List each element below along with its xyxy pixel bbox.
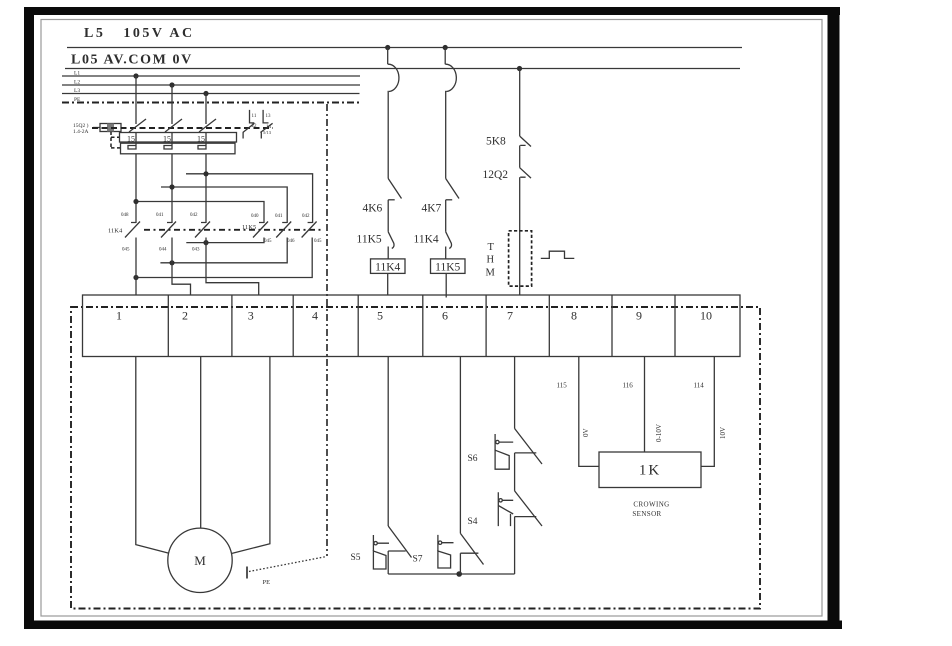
wire cross link D [186, 238, 264, 243]
pole blade 1 [129, 119, 146, 132]
wire 12Q2 to terminal 7 [519, 177, 521, 295]
wire terminal5 down [387, 357, 389, 527]
svg-text:15: 15 [163, 135, 171, 144]
scan border left bar [24, 7, 34, 629]
wire L1 drop [135, 76, 137, 124]
wire branch7 upper [519, 69, 521, 137]
wire hop over L05 branch5 [388, 64, 399, 91]
contact 11K4 blade [446, 232, 452, 249]
contact 041 blade [161, 222, 176, 238]
node dot branch5 on L5 [385, 45, 390, 50]
bus L3 [62, 93, 360, 95]
wire terminal3 to motor [232, 357, 270, 554]
svg-text:M: M [194, 553, 206, 568]
wire branch6 to 4K7 [445, 91, 447, 179]
FUSESECTION [73, 110, 273, 154]
wire v3 jog to terminal 3 [206, 238, 259, 296]
svg-text:22: 22 [252, 124, 258, 129]
wire hop over L05 branch6 [445, 64, 456, 91]
thermal module THM dashed box [509, 231, 532, 286]
svg-text:PE: PE [74, 97, 81, 103]
STRIP [71, 295, 760, 609]
svg-text:042: 042 [302, 214, 310, 219]
svg-text:045: 045 [314, 239, 322, 244]
inner page frame [41, 20, 822, 617]
SWITCHES [351, 357, 543, 577]
svg-text:S5: S5 [351, 553, 361, 563]
sensor 1K box [599, 452, 701, 488]
terminal divider 9|10 [674, 295, 676, 357]
wire terminal2 to motor [200, 357, 202, 529]
contact 048 blade [125, 222, 140, 238]
wire branch5 upper [387, 48, 389, 65]
node dot branch7 on L05 [517, 66, 522, 71]
svg-text:L5 105V AC: L5 105V AC [84, 26, 195, 41]
svg-text:048: 048 [121, 213, 129, 218]
svg-text:10V: 10V [719, 427, 727, 439]
contactor upper box [120, 133, 237, 143]
wire L2 drop [171, 85, 173, 124]
pushbutton S4 actuator [498, 492, 513, 526]
wire 5K8 to 12Q2 [519, 145, 521, 167]
terminal divider 7|8 [548, 295, 550, 357]
svg-text:1K: 1K [639, 463, 661, 479]
pushbutton S6 circle [496, 440, 499, 443]
node dot B-v2 [169, 184, 174, 189]
motor M1 circle [168, 528, 232, 592]
svg-text:11K4: 11K4 [375, 262, 400, 274]
scan border top bar [24, 7, 840, 15]
wire 4K7 to 11K4 [445, 200, 447, 232]
machine boundary dash-dot box [71, 307, 760, 609]
svg-text:11K5: 11K5 [357, 234, 382, 246]
pushbutton S5 flag [373, 551, 386, 569]
wire stub to breaker [93, 127, 100, 129]
svg-text:M: M [486, 268, 496, 279]
breaker 15Q2 body [100, 124, 121, 132]
heater element 3 [198, 143, 206, 149]
terminal divider 8|9 [611, 295, 613, 357]
wire coil to terminal 6 [445, 273, 447, 297]
wire pole2 through boxes [171, 132, 173, 143]
svg-text:15: 15 [127, 135, 135, 144]
svg-text:1: 1 [116, 309, 122, 323]
svg-text:2: 2 [182, 309, 188, 323]
aux contact 13-14 upper bracket [263, 110, 268, 123]
svg-text:4K6: 4K6 [363, 203, 383, 215]
MOTOR [136, 357, 327, 593]
wire branch6 upper [444, 48, 446, 65]
svg-text:10: 10 [700, 309, 712, 323]
aux contact 13-14 blade [260, 123, 272, 132]
node dot F-v1 [133, 275, 138, 280]
svg-text:5K8: 5K8 [486, 136, 506, 148]
heater element 1 [128, 143, 136, 149]
svg-text:H: H [487, 255, 495, 266]
pushbutton S4 circle [499, 499, 502, 502]
wire phase3 below overload [205, 154, 207, 223]
ground bar PE [246, 567, 248, 579]
svg-text:11K5: 11K5 [435, 262, 460, 274]
SENSOR [557, 357, 728, 519]
limit switch S4 blade [515, 491, 542, 526]
wire terminal6 down [459, 357, 461, 534]
svg-text:0-10V: 0-10V [655, 424, 663, 442]
svg-text:116: 116 [623, 382, 634, 390]
scan border right bar [828, 7, 840, 629]
svg-text:S7: S7 [413, 555, 423, 565]
node dot E-v2 [169, 260, 174, 265]
wire terminal8 to sensor 115 [579, 357, 599, 467]
BRANCHES [357, 45, 575, 298]
svg-text:045: 045 [264, 239, 272, 244]
svg-text:L1: L1 [74, 71, 80, 77]
INTERLOCK [108, 154, 322, 296]
svg-text:15Q2 ): 15Q2 ) [73, 122, 89, 129]
boundary dash-dot vertical of control cabinet [326, 104, 328, 556]
terminal divider 5|6 [422, 295, 424, 357]
scan border bottom bar [24, 621, 842, 630]
pushbutton S7 flag [438, 551, 451, 568]
node dot L3 tap [203, 91, 208, 96]
terminal strip outline [83, 295, 741, 357]
svg-text:042: 042 [190, 213, 198, 218]
svg-text:11K4: 11K4 [108, 228, 123, 235]
pole blade 2 [165, 119, 182, 132]
svg-text:PE: PE [263, 579, 271, 586]
node dot C-v1 [133, 199, 138, 204]
svg-text:040: 040 [251, 214, 259, 219]
terminal divider 1|2 [167, 295, 169, 357]
svg-text:15: 15 [197, 135, 205, 144]
wire phase1 below overload [135, 154, 137, 223]
wire cross link C [136, 202, 264, 224]
node dot bottom bus [456, 571, 462, 577]
wire v1 to terminal 1 [135, 238, 137, 296]
wire terminal10 to sensor 114 [701, 357, 714, 467]
svg-text:SENSOR: SENSOR [632, 510, 661, 518]
svg-text:8: 8 [571, 309, 577, 323]
terminal divider 6|7 [485, 295, 487, 357]
svg-text:L3: L3 [74, 88, 80, 94]
wire terminal7 down [514, 357, 516, 429]
limit switch S7 blade [460, 533, 483, 564]
bottom bus wire [388, 573, 514, 575]
svg-text:6: 6 [442, 309, 448, 323]
svg-text:1.4-2A: 1.4-2A [73, 129, 88, 135]
pole blade 3 [199, 119, 216, 132]
heater element 2 [164, 143, 172, 149]
svg-text:3: 3 [248, 309, 254, 323]
TOPBUS [62, 26, 742, 556]
contact 4K7 lower bracket [446, 199, 453, 201]
contact 4K6 blade [388, 179, 401, 199]
contact 12Q2 blade [520, 168, 531, 178]
wire S4 to bottom bus [514, 517, 516, 574]
wire 4K6 to 11K5 [387, 200, 389, 232]
bus L2 [62, 84, 360, 86]
contact 042b blade [302, 222, 317, 238]
contact 5K8 blade [520, 136, 531, 146]
wire branch5 to 4K6 [387, 91, 389, 179]
aux contact 11-22 upper bracket [250, 110, 255, 123]
wire pole3 through boxes [205, 132, 207, 143]
svg-text:115: 115 [557, 382, 568, 390]
aux contact 11-22 lower stub [242, 132, 244, 138]
mechanical linkage dashed line Q2 [92, 127, 273, 129]
bus PE dash-dot [62, 102, 360, 104]
limit switch S7 bracket [460, 552, 478, 554]
svg-text:12Q2: 12Q2 [483, 169, 509, 181]
wire cross link F [136, 238, 312, 278]
pushbutton S5 actuator [373, 535, 389, 551]
node dot D-v3 [203, 240, 208, 245]
svg-text:L05 AV.COM 0V: L05 AV.COM 0V [71, 53, 193, 68]
wire terminal9 to sensor 116 [644, 357, 646, 453]
contact 4K6 lower bracket [388, 199, 395, 201]
aux contact 13-14 lower stub [260, 132, 262, 138]
overload relay box [121, 143, 236, 154]
wire cross link E [160, 238, 287, 263]
wire v2 jog to terminal 2 [172, 238, 191, 296]
node dot branch6 on L5 [443, 45, 448, 50]
node dot L2 tap [169, 82, 174, 87]
svg-text:L2: L2 [74, 80, 80, 86]
contact 4K7 blade [446, 179, 459, 199]
limit switch S6 blade [515, 429, 542, 465]
node dot L1 tap [133, 73, 138, 78]
svg-text:5/13: 5/13 [263, 130, 272, 135]
wire S6 to S4 [514, 453, 516, 491]
pulse waveform symbol [541, 251, 575, 258]
bus L1 [62, 75, 360, 77]
svg-text:11K5: 11K5 [242, 224, 256, 231]
wire pole1 through boxes [135, 132, 137, 143]
contact 042 blade [195, 222, 210, 238]
svg-text:114: 114 [694, 382, 705, 390]
pushbutton S7 actuator [438, 535, 454, 551]
pushbutton S5 circle [374, 542, 377, 545]
limit switch S5 bracket [388, 550, 406, 552]
linkage dash-dot 11K4/11K5 [144, 229, 322, 231]
contact 041b blade [276, 222, 291, 238]
bus L5 105V AC [67, 47, 742, 49]
terminal divider 3|4 [292, 295, 294, 357]
wire phase2 below overload [171, 154, 173, 223]
node dot A-v3 [203, 171, 208, 176]
terminal divider 4|5 [357, 295, 359, 357]
limit switch S6 bracket [515, 452, 537, 454]
dotted earth link [249, 557, 327, 572]
svg-text:4: 4 [312, 309, 318, 323]
coil 11K4 box [371, 259, 406, 274]
bus L05 0V [65, 68, 740, 70]
pushbutton S6 flag [495, 450, 509, 469]
wire coil to terminal 5 [387, 273, 389, 295]
svg-text:043: 043 [192, 248, 200, 253]
svg-text:0V: 0V [582, 428, 590, 437]
svg-text:5: 5 [377, 309, 383, 323]
limit switch S4 bracket [515, 516, 537, 518]
svg-text:S4: S4 [468, 517, 478, 527]
wire 11K4 to coil [445, 247, 447, 259]
svg-text:11K4: 11K4 [414, 234, 439, 246]
coil 11K5 box [431, 259, 466, 274]
wire 11K5 to coil [387, 247, 389, 259]
svg-text:S6: S6 [468, 454, 478, 464]
svg-text:046: 046 [287, 239, 295, 244]
svg-text:13: 13 [266, 114, 272, 119]
svg-text:044: 044 [159, 248, 167, 253]
wire L3 drop [205, 94, 207, 125]
svg-text:041: 041 [275, 214, 283, 219]
contact 11K5 blade [388, 232, 394, 249]
mechanical link from breaker dashed [111, 132, 121, 149]
pushbutton S7 circle [438, 541, 441, 544]
svg-text:7: 7 [507, 309, 513, 323]
svg-text:11: 11 [252, 114, 257, 119]
pushbutton S4 blade link [498, 506, 513, 527]
svg-text:041: 041 [156, 213, 164, 218]
wire cross link A [186, 174, 313, 223]
svg-text:T: T [488, 242, 495, 253]
wire terminal1 to motor [136, 357, 169, 554]
svg-text:045: 045 [122, 248, 130, 253]
svg-text:CROWING: CROWING [633, 501, 669, 509]
wire S5 to bottom bus [387, 551, 389, 574]
aux contact 11-22 blade [243, 123, 255, 132]
pushbutton S6 actuator [495, 434, 513, 450]
wire cross link B [161, 187, 287, 223]
svg-text:9: 9 [636, 309, 642, 323]
contact 040 blade [253, 222, 268, 238]
terminal divider 2|3 [231, 295, 233, 357]
wire S7 to bottom bus [459, 553, 461, 574]
limit switch S5 blade [388, 526, 411, 558]
svg-text:4K7: 4K7 [422, 203, 442, 215]
